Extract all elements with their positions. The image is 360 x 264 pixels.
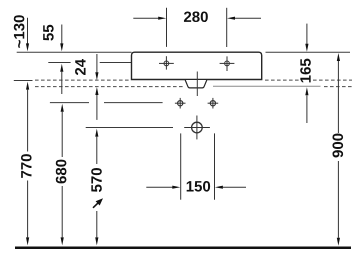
dimension 900 label [332, 134, 343, 158]
dimension 165 lower arrow [305, 87, 308, 95]
dimension 280 right extension line [226, 8, 228, 47]
hidden edge dashed line upper (y=80) [35, 79, 352, 81]
mounting bolt hole right [208, 98, 219, 109]
floor line [15, 247, 351, 250]
dimension 165 label [299, 58, 313, 83]
dimension 680 upper arrow [61, 104, 64, 112]
dimension 770 reference segment [14, 80, 33, 82]
washbasin outline [132, 52, 262, 79]
top reference line right segment [266, 51, 351, 53]
dimension 770 upper arrow [26, 82, 29, 90]
dimension 150 right extension line [214, 133, 216, 199]
height adjustable arrow symbol [93, 198, 103, 208]
dimension 24 label [75, 59, 85, 75]
drain axis line through notch [196, 72, 198, 97]
dimension 680 lower line and arrow [61, 186, 63, 237]
mounting bolt hole left [175, 98, 186, 109]
dimension 165 upper arrow line [306, 24, 308, 44]
dimension 280 left leader and arrow [133, 17, 158, 19]
dimension 280 left extension line [166, 8, 168, 47]
dimension 150 left extension line [180, 133, 182, 199]
faucet level reference line [48, 62, 70, 64]
dimension 770 label [21, 154, 32, 178]
dimension 900 lower line and arrow [337, 161, 339, 238]
dimension 280 right arrow and leader [227, 17, 235, 20]
overflow/outlet notch below basin [185, 80, 207, 88]
bolt level reference line [50, 102, 89, 104]
dimension 280 label [184, 11, 208, 22]
dimension 570 upper arrow [95, 129, 98, 137]
drain level reference line [86, 127, 173, 129]
dimension ~130 label [14, 15, 25, 48]
dimension 55 lower arrow [60, 64, 63, 72]
dimension 900 upper arrow [337, 53, 340, 61]
top reference line (basin rim level) left segment [17, 51, 132, 53]
dimension 24 lower arrow [95, 87, 98, 95]
thin solid hidden edge segment [213, 85, 321, 87]
dimension 150 right arrow and leader [215, 186, 223, 189]
dimension 55 label [43, 25, 53, 41]
dimension 150 left leader and arrow [146, 186, 172, 188]
dimension 570 label [91, 168, 102, 192]
hidden edge dashed line lower (y=86.6) [35, 86, 352, 88]
dimension 680 label [56, 160, 67, 184]
dimension ~130 arrow line [27, 18, 29, 44]
drain hole (crosshair circle) [184, 116, 210, 140]
faucet hole right (crosshair) [220, 56, 235, 71]
dimension 150 label [187, 181, 210, 192]
dimension 570 lower line and arrow [96, 211, 98, 237]
dimension 770 lower line and arrow [27, 181, 29, 238]
dimension 24 upper arrow line [96, 54, 98, 72]
dimension 55 upper arrow line [61, 25, 63, 44]
faucet hole left (crosshair) [159, 56, 174, 69]
